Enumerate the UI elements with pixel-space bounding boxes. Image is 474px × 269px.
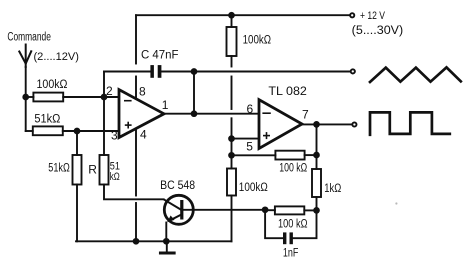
wire collector to node — [183, 209, 265, 211]
capacitor C 47nF plates — [150, 65, 161, 78]
wire pin4 line upper — [135, 129, 137, 196]
wire op1 output to op2 pin6 — [164, 113, 259, 115]
resistor 100k input lead right / wire to pin2 — [63, 96, 119, 98]
op-amp U2 plus sign — [264, 133, 269, 138]
wire feedback riser — [316, 124, 318, 169]
wire riser x=231.5 segment below cap line — [231, 77, 233, 110]
op-amp U2 — [259, 100, 302, 149]
svg-text:(5....30V): (5....30V) — [352, 25, 404, 37]
resistor 100k input lead left — [26, 96, 34, 98]
node emitter/ground junction — [164, 239, 169, 244]
wire capacitor to output terminal — [161, 71, 350, 73]
node pin5 junction — [229, 136, 234, 141]
node collector junction — [263, 207, 268, 212]
resistor 51k input lead right / wire to pin3 — [63, 130, 119, 132]
op-amp U2 minus sign — [263, 112, 270, 114]
node pin4/rail junction — [134, 239, 139, 244]
resistor 51k vertical lead lower — [76, 185, 78, 242]
resistor R 100k top body — [227, 27, 237, 56]
node output/cap junction — [192, 69, 197, 74]
commande arrow — [19, 45, 31, 68]
svg-text:+ 12 V: + 12 V — [360, 10, 386, 22]
svg-text:8: 8 — [139, 85, 146, 99]
waveform square — [370, 112, 450, 134]
op-amp U1 minus sign — [125, 100, 131, 102]
wire riser output node down to pin1 line — [193, 72, 195, 114]
wire riser cap to pin2 node — [103, 72, 105, 98]
svg-text:4: 4 — [140, 128, 147, 142]
node divider-right junction — [314, 153, 319, 158]
wire triangle-output line y=71.5 — [104, 71, 150, 73]
op-amp U1 plus sign — [126, 123, 131, 128]
node output feedback junction — [314, 122, 319, 127]
svg-text:7: 7 — [302, 108, 309, 122]
wire resistor to node — [304, 209, 316, 211]
ink speck — [395, 202, 397, 204]
resistor 100k vertical mid body — [227, 169, 236, 196]
resistor 1k body — [312, 169, 321, 197]
terminal square-wave output — [352, 122, 356, 126]
svg-text:100kΩ: 100kΩ — [37, 79, 68, 91]
resistor R vertical lead upper — [103, 97, 105, 155]
wire top supply rail — [136, 14, 350, 16]
transistor Q1 BC548 — [164, 195, 193, 224]
wire bottom rail — [76, 240, 232, 242]
svg-text:3: 3 — [111, 128, 118, 142]
resistor R vertical lead lower to base — [104, 185, 164, 200]
svg-text:C 47nF: C 47nF — [141, 50, 179, 62]
svg-text:1nF: 1nF — [283, 248, 299, 260]
wire resistor to riser — [305, 154, 317, 156]
svg-text:R: R — [88, 162, 97, 176]
wire pin4 line lower — [135, 203, 137, 241]
terminal +12V — [350, 13, 354, 17]
op-amp U1 — [119, 90, 164, 138]
node pin1/pin6 junction — [192, 111, 197, 116]
resistor 51k input body — [33, 126, 63, 135]
resistor R vertical body — [100, 155, 109, 185]
wire pin8 riser lower — [135, 77, 137, 99]
wire collector node to resistor — [265, 209, 275, 211]
svg-text:Commande: Commande — [7, 32, 51, 44]
resistor 100k vertical mid lead lower — [231, 196, 233, 242]
svg-text:(2....12V): (2....12V) — [34, 51, 80, 63]
resistor 51k vertical lead upper — [76, 131, 78, 155]
resistor R 100k top lead lower — [231, 56, 233, 67]
capacitor 1nF branch left — [265, 210, 283, 238]
svg-text:100kΩ: 100kΩ — [243, 35, 272, 47]
wire emitter down — [165, 223, 167, 242]
wire riser x=231.5 segment to pin5 node — [231, 118, 233, 168]
resistor R 100k top lead upper — [231, 15, 233, 27]
svg-text:51kΩ: 51kΩ — [48, 162, 70, 174]
svg-text:1: 1 — [162, 98, 169, 112]
ground — [166, 241, 168, 252]
wire op2 output to terminal — [302, 123, 352, 125]
node pin2 node junction — [102, 95, 107, 100]
svg-text:kΩ: kΩ — [110, 171, 120, 183]
node bottom-right junction — [314, 208, 319, 213]
svg-text:51kΩ: 51kΩ — [34, 113, 60, 125]
resistor 100k input body — [33, 93, 63, 102]
node divider junction — [229, 153, 234, 158]
wire divider horizontal — [232, 154, 276, 156]
wire pin8 riser upper — [135, 15, 137, 63]
svg-text:100 kΩ: 100 kΩ — [279, 163, 307, 175]
wire left riser — [25, 67, 27, 131]
capacitor 1nF plates — [283, 232, 293, 244]
svg-text:1kΩ: 1kΩ — [324, 183, 341, 195]
node pin3 junction — [75, 129, 80, 134]
node pin2-line left junction — [23, 95, 28, 100]
resistor 100k mid horizontal body — [275, 151, 304, 160]
resistor 1k lead lower — [316, 197, 318, 210]
resistor 100k bottom horizontal body — [275, 206, 304, 214]
svg-text:BC 548: BC 548 — [160, 178, 195, 192]
terminal triangle-wave output — [351, 69, 355, 73]
resistor 51k input lead left — [26, 130, 33, 132]
svg-text:100 kΩ: 100 kΩ — [278, 219, 308, 231]
svg-text:5: 5 — [246, 139, 253, 153]
capacitor 1nF branch right — [293, 210, 317, 238]
node top rail junction — [229, 13, 234, 18]
wire pin5 — [232, 138, 260, 140]
svg-text:6: 6 — [247, 102, 254, 116]
svg-text:TL 082: TL 082 — [268, 84, 307, 98]
resistor 51k vertical body — [73, 155, 82, 185]
svg-text:2: 2 — [106, 84, 113, 98]
svg-text:100kΩ: 100kΩ — [239, 182, 268, 194]
waveform triangle — [370, 67, 461, 82]
